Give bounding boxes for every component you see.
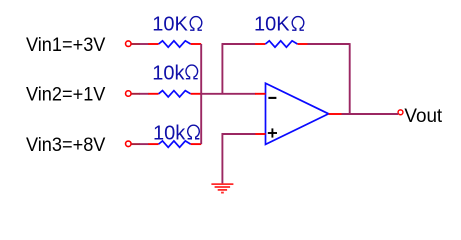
node Vin2 label — [26, 85, 106, 106]
pin stub output — [329, 113, 343, 115]
wire ground riser — [221, 133, 223, 184]
value label R3 ohm — [188, 125, 200, 139]
wire feedback riser — [221, 44, 223, 93]
value label R2 10k — [152, 62, 185, 84]
pin stub inverting input — [255, 93, 266, 95]
wire feedback top left — [222, 43, 256, 45]
resistor R4 feedback — [255, 41, 308, 47]
value label R1 ohm — [190, 17, 202, 31]
svg-text:10k: 10k — [153, 122, 186, 144]
value label R4 ohm — [292, 17, 304, 31]
terminal Vout — [398, 110, 403, 115]
wire Vin2 terminal to R2 — [132, 93, 149, 95]
svg-text:Vin1=+3V: Vin1=+3V — [26, 35, 106, 56]
ground — [211, 184, 233, 193]
wire summing node vertical — [200, 44, 202, 144]
terminal Vin2 — [126, 91, 132, 97]
wire Vin3 terminal to R3 — [132, 143, 149, 145]
op-amp U1 — [266, 83, 329, 144]
value label R4 10K — [254, 14, 290, 36]
svg-text:Vin2=+1V: Vin2=+1V — [26, 85, 106, 106]
wire node to inverting input — [200, 93, 255, 95]
resistor R1 — [148, 41, 201, 47]
svg-text:10K: 10K — [152, 14, 188, 36]
wire output to Vout terminal — [342, 113, 399, 115]
svg-text:Vin3=+8V: Vin3=+8V — [26, 135, 106, 156]
wire non-inverting input to ground riser — [222, 133, 256, 135]
resistor R2 — [148, 91, 201, 97]
wire Vin1 terminal to R1 — [132, 43, 149, 45]
resistor R3 — [148, 141, 201, 147]
svg-text:10K: 10K — [254, 14, 290, 36]
node Vin3 label — [26, 135, 106, 156]
node Vin1 label — [26, 35, 106, 56]
wire feedback top right — [307, 43, 349, 45]
svg-text:10k: 10k — [152, 62, 185, 84]
terminal Vin3 — [126, 141, 132, 147]
pin stub non-inverting input — [255, 133, 266, 135]
wire feedback right vertical — [349, 43, 351, 114]
node Vout label — [404, 106, 442, 127]
value label R1 10K — [152, 14, 188, 36]
svg-text:Vout: Vout — [404, 106, 442, 127]
value label R3 10k — [153, 122, 186, 144]
terminal Vin1 — [126, 41, 132, 47]
value label R2 ohm — [186, 65, 198, 79]
